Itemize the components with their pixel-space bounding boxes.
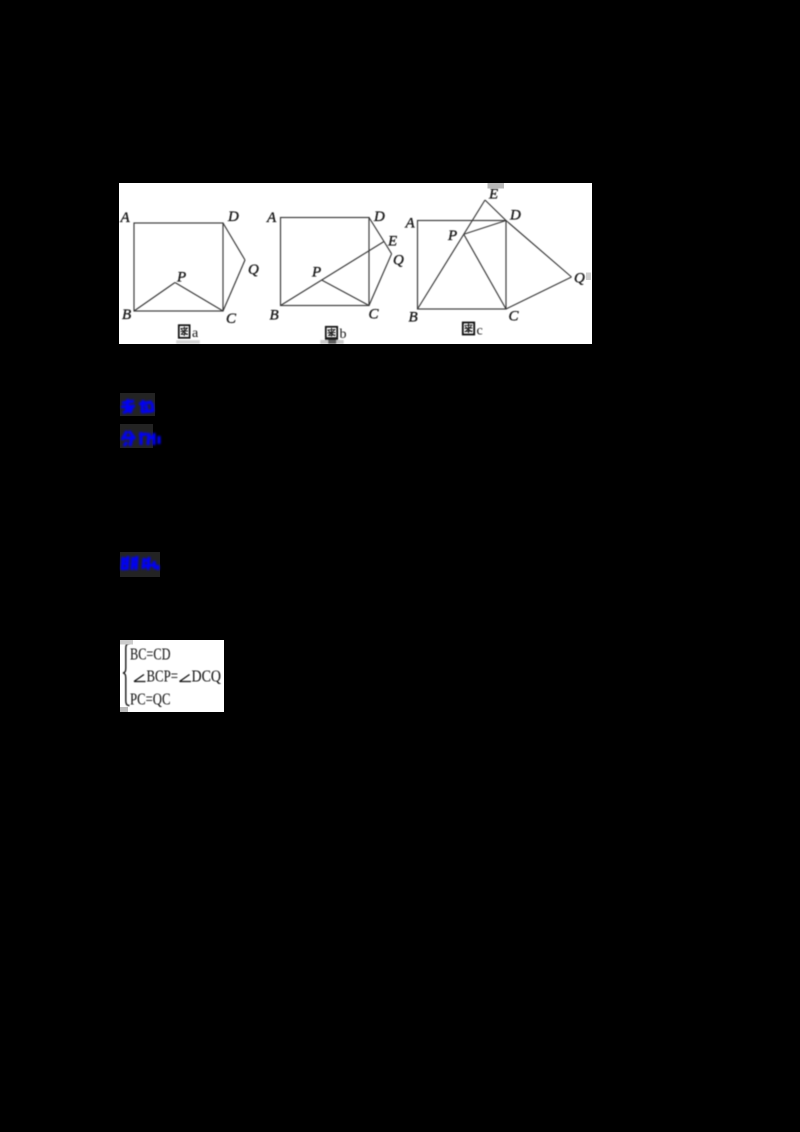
square ABCD (fig c) xyxy=(418,221,507,310)
svg-text:D: D xyxy=(373,209,385,225)
svg-text:B: B xyxy=(270,308,279,324)
wire D-E (fig b) xyxy=(369,218,384,242)
svg-text:BCP=: BCP= xyxy=(147,667,179,686)
wire C-Q (fig c) xyxy=(506,277,572,309)
svg-text:c: c xyxy=(477,324,483,339)
wire B-E through P (fig c) xyxy=(418,200,486,309)
svg-text:C: C xyxy=(369,307,380,323)
figure panel (white box with three geometry figures) xyxy=(119,183,592,344)
svg-text:C: C xyxy=(226,311,237,327)
svg-text:A: A xyxy=(120,210,131,226)
svg-text:a: a xyxy=(192,326,199,341)
svg-text:A: A xyxy=(266,210,277,226)
wire Q-C (fig b) xyxy=(369,254,392,306)
svg-text:Q: Q xyxy=(248,262,259,278)
svg-text:B: B xyxy=(122,307,131,323)
left curly brace xyxy=(123,644,130,706)
svg-text:b: b xyxy=(340,327,347,342)
wire P-C (fig b) xyxy=(322,280,369,306)
gray smudge right of Q (fig c) xyxy=(586,273,591,281)
caption 图b xyxy=(320,327,346,344)
wire Q-C (fig a) xyxy=(223,260,245,311)
svg-text:P: P xyxy=(176,270,186,286)
svg-text:P: P xyxy=(447,228,457,244)
svg-text:PC=QC: PC=QC xyxy=(130,690,171,709)
wire D-Q (fig c) xyxy=(506,221,572,278)
wire E-Q (fig b) xyxy=(384,242,392,254)
wire B-E through P (fig b) xyxy=(281,242,385,306)
svg-text:BC=CD: BC=CD xyxy=(130,645,171,664)
caption 图a xyxy=(176,325,200,344)
gray corner artifacts xyxy=(120,640,133,645)
wire B-P (fig a) xyxy=(134,283,175,312)
svg-text:DCQ: DCQ xyxy=(192,667,222,686)
caption 图c xyxy=(463,323,483,339)
wire D-Q (fig a) xyxy=(223,223,245,260)
equation line 2: ∠BCP=∠DCQ xyxy=(134,675,191,682)
svg-text:Q: Q xyxy=(574,271,585,287)
equation system box xyxy=(120,640,224,712)
blue label 3 (解答) xyxy=(120,552,160,577)
svg-text:B: B xyxy=(409,310,418,326)
wire P-C (fig a) xyxy=(175,283,223,312)
wire E-D (fig c) xyxy=(485,200,506,221)
square ABCD (fig b) xyxy=(281,218,370,306)
svg-text:E: E xyxy=(387,234,397,250)
blue label 2 (分析) xyxy=(120,424,153,448)
svg-text:Q: Q xyxy=(393,253,404,269)
svg-text:C: C xyxy=(509,309,520,325)
svg-text:D: D xyxy=(509,208,521,224)
wire P-D (fig c) xyxy=(464,221,506,235)
svg-text:E: E xyxy=(488,187,498,203)
square ABCD (fig a) xyxy=(134,223,223,311)
blue label 1 (考点) xyxy=(120,393,155,416)
svg-text:P: P xyxy=(311,265,321,281)
gray smudge above E (fig c) xyxy=(488,183,505,189)
svg-text:A: A xyxy=(405,216,416,232)
svg-text:D: D xyxy=(227,209,239,225)
wire P-C (fig c) xyxy=(464,234,506,309)
